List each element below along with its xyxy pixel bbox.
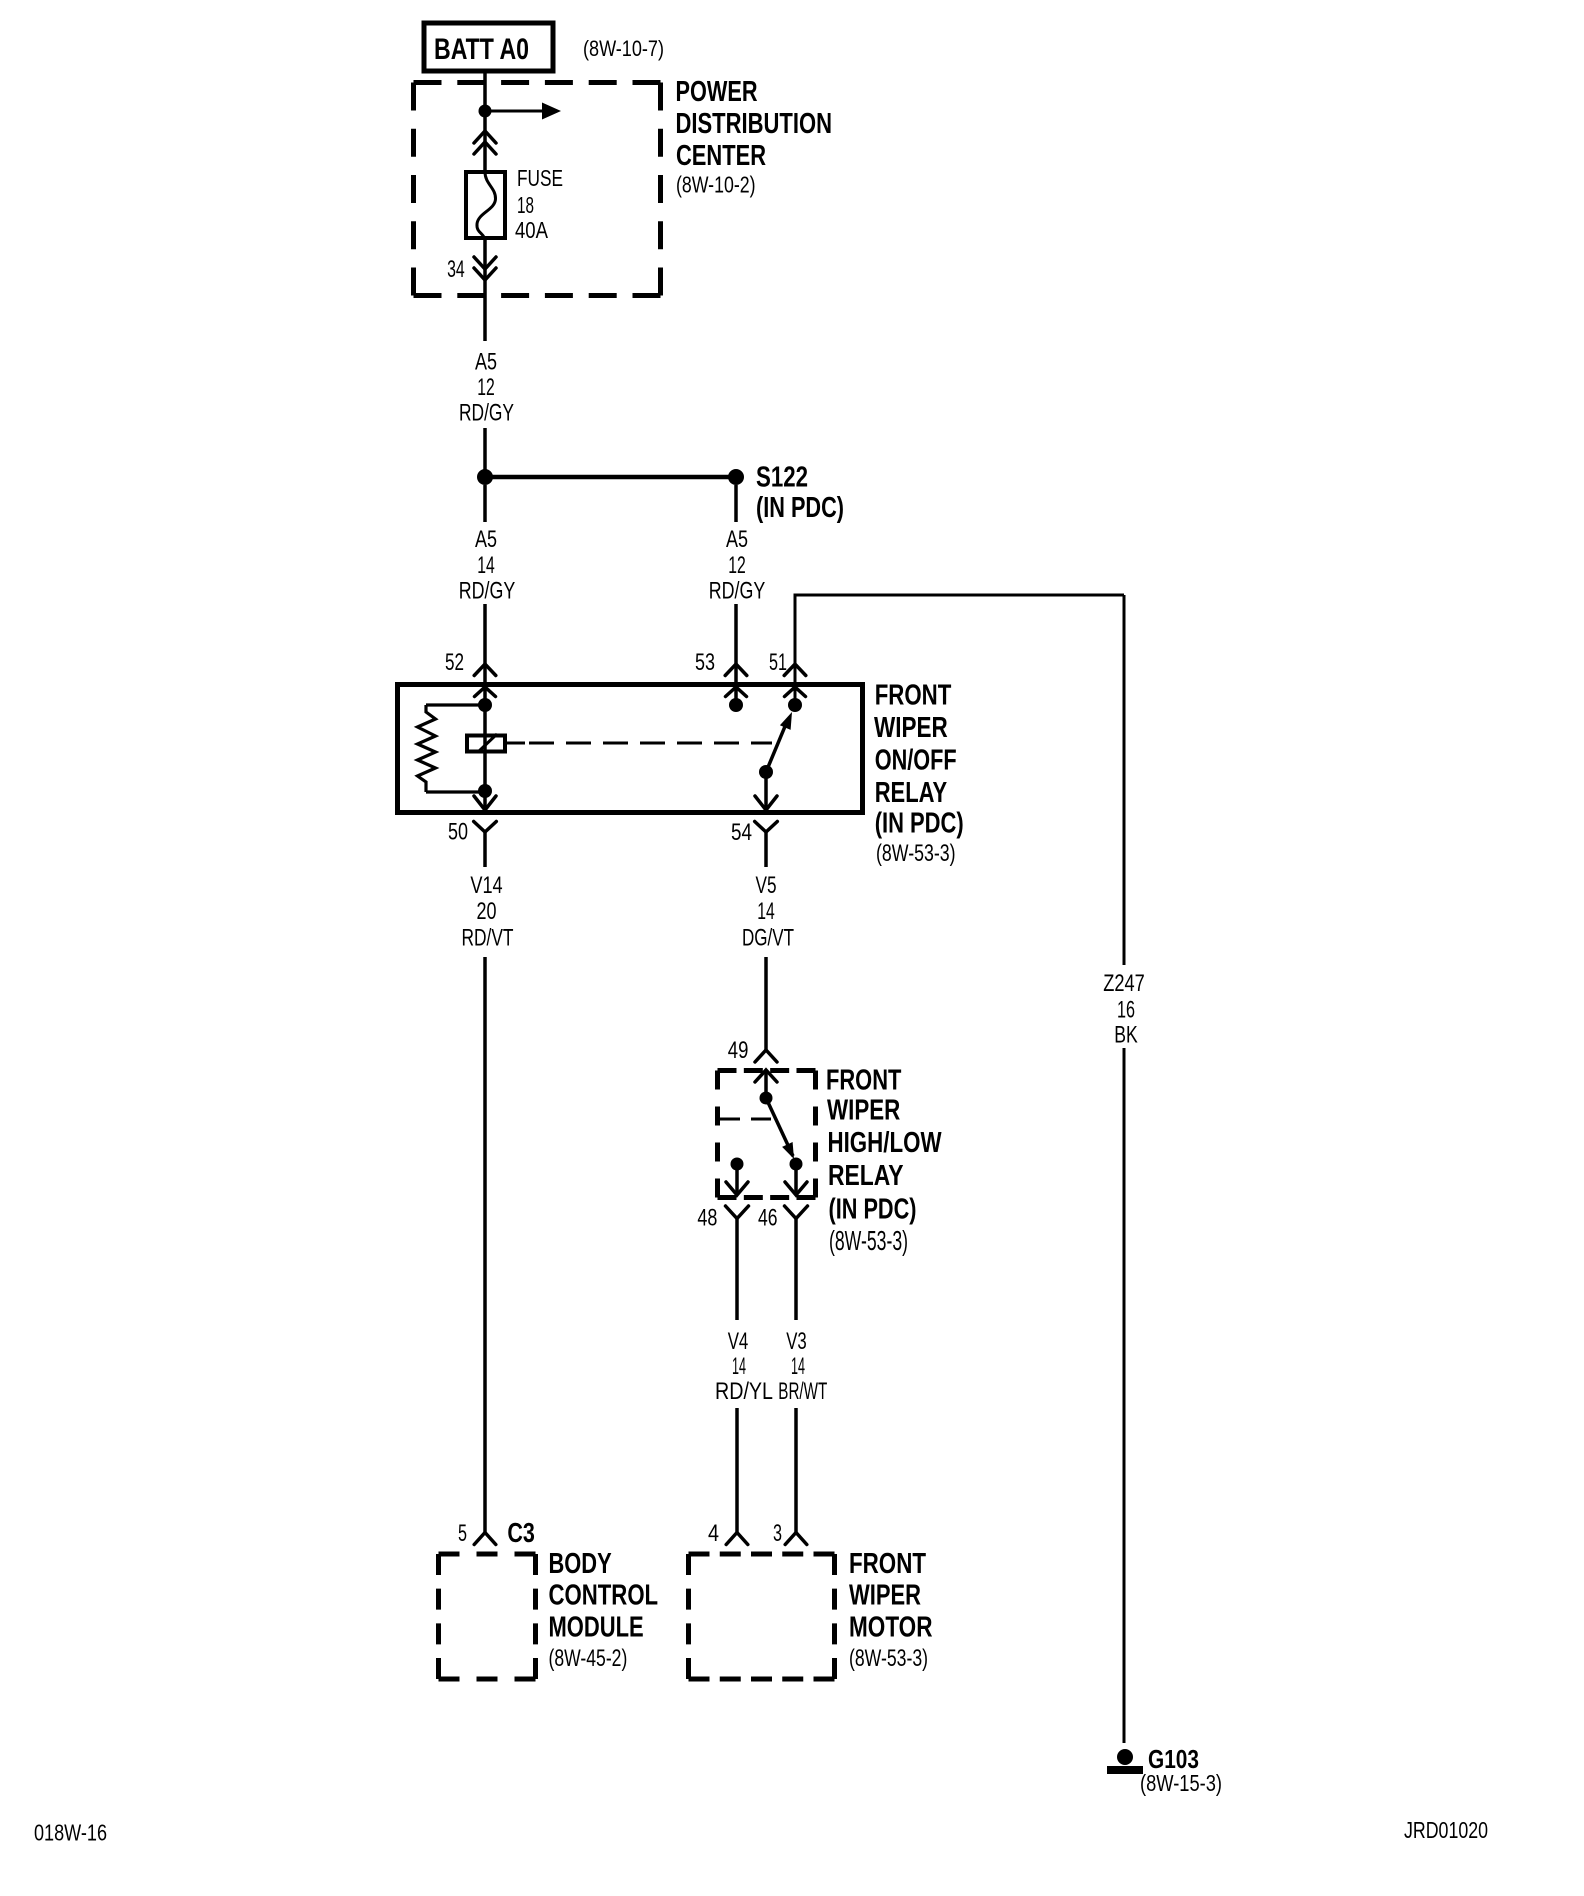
svg-text:14: 14 (732, 1353, 746, 1380)
wire (764, 772, 768, 810)
label FUSE 18 40A (515, 165, 563, 243)
wire (483, 428, 487, 477)
wire splice bus (485, 475, 736, 480)
label BODY CONTROL MODULE (549, 1548, 659, 1672)
wire (483, 485, 487, 522)
wire label V4 14 RD/YL (715, 1328, 773, 1405)
node S122 (728, 469, 744, 485)
svg-text:BR/WT: BR/WT (778, 1378, 827, 1405)
wire (734, 604, 738, 705)
wire label A5 14 RD/GY (459, 526, 516, 605)
pin label 5 (458, 1520, 467, 1547)
svg-text:RELAY: RELAY (875, 777, 947, 809)
relay switch arm (766, 712, 792, 772)
svg-text:018W-16: 018W-16 (34, 1820, 107, 1846)
pin 4 connector (726, 1533, 748, 1545)
wire label V5 14 DG/VT (742, 872, 794, 952)
pin label 53 (695, 649, 715, 676)
svg-text:JRD01020: JRD01020 (1404, 1817, 1488, 1843)
wire label A5 12 RD/GY (459, 349, 514, 427)
svg-text:49: 49 (728, 1037, 749, 1064)
svg-text:(8W-53-3): (8W-53-3) (849, 1645, 928, 1672)
svg-text:DISTRIBUTION: DISTRIBUTION (676, 108, 833, 140)
relay switch arm (766, 1098, 794, 1159)
pin label 3 (773, 1520, 782, 1547)
pin 54 connector (755, 796, 778, 867)
wire (794, 1164, 798, 1195)
relay front wiper high/low box (718, 1071, 816, 1198)
svg-text:12: 12 (728, 552, 746, 579)
node coil bottom (478, 784, 492, 798)
pin 52 connector (474, 664, 496, 697)
label POWER DISTRIBUTION CENTER (676, 76, 833, 198)
svg-text:A5: A5 (726, 526, 748, 553)
svg-text:S122: S122 (756, 462, 808, 494)
svg-text:C3: C3 (507, 1517, 535, 1548)
svg-text:FUSE: FUSE (517, 165, 563, 191)
svg-text:51: 51 (769, 649, 787, 676)
svg-text:14: 14 (791, 1353, 805, 1380)
pin label 54 (731, 819, 752, 846)
wire label A5 12 RD/GY (709, 526, 766, 605)
pin label 48 (697, 1205, 717, 1232)
svg-text:Z247: Z247 (1103, 970, 1145, 997)
pin label 46 (758, 1205, 778, 1232)
svg-text:(8W-10-2): (8W-10-2) (676, 172, 756, 198)
svg-text:16: 16 (1117, 997, 1135, 1024)
relay coil dashed link (716, 1118, 771, 1121)
svg-text:(8W-15-3): (8W-15-3) (1140, 1770, 1222, 1796)
label FRONT WIPER HIGH/LOW RELAY (826, 1065, 942, 1257)
pin 34 chevrons (474, 257, 496, 280)
wire (483, 957, 487, 1532)
svg-text:POWER: POWER (676, 76, 758, 108)
pin 50 connector (474, 796, 497, 867)
wire (483, 705, 487, 791)
svg-text:DG/VT: DG/VT (742, 925, 794, 952)
sheet number 018W-16 (34, 1820, 107, 1846)
connector label C3 (507, 1517, 535, 1548)
svg-text:BATT A0: BATT A0 (434, 33, 529, 66)
pin 51 connector (784, 664, 806, 697)
svg-text:4: 4 (708, 1520, 719, 1547)
wire (1123, 1048, 1126, 1743)
relay actuation dashed link (506, 742, 772, 745)
ground G103 (1107, 1749, 1143, 1774)
svg-text:(8W-45-2): (8W-45-2) (549, 1645, 628, 1672)
wire (794, 1232, 798, 1320)
wire (483, 73, 487, 172)
svg-text:RELAY: RELAY (828, 1160, 904, 1192)
wire (764, 957, 768, 1050)
svg-text:14: 14 (757, 898, 775, 925)
node pin 53 internal (729, 698, 743, 712)
svg-text:BODY: BODY (549, 1548, 612, 1580)
label BATT A0 (434, 33, 529, 66)
reference (8W-10-7) (583, 36, 664, 61)
svg-text:HIGH/LOW: HIGH/LOW (828, 1127, 942, 1159)
pin label 34 (447, 256, 465, 283)
node junction in PDC (479, 105, 492, 118)
svg-text:3: 3 (773, 1520, 782, 1547)
pin 3 connector (785, 1533, 807, 1545)
label G103 (8W-15-3) (1140, 1744, 1222, 1796)
svg-text:V4: V4 (728, 1328, 749, 1355)
label S122 (IN PDC) (756, 462, 844, 525)
svg-text:(8W-53-3): (8W-53-3) (876, 840, 956, 867)
wire (795, 594, 1124, 706)
svg-text:CONTROL: CONTROL (549, 1580, 659, 1612)
label FRONT WIPER ON/OFF RELAY (874, 680, 964, 868)
wire (794, 1408, 798, 1532)
node pin 51 internal (788, 698, 802, 712)
wire (483, 791, 487, 810)
svg-text:BK: BK (1114, 1022, 1138, 1049)
node pin 46 internal (790, 1158, 803, 1171)
power distribution center box (414, 83, 661, 296)
relay front wiper on/off box (398, 685, 863, 813)
wire (483, 604, 487, 705)
svg-text:CENTER: CENTER (676, 140, 766, 172)
wire label V14 20 RD/VT (462, 872, 514, 952)
fuse 18 40A (466, 172, 505, 240)
pin 48 connector (726, 1182, 749, 1232)
node BATT A0 feed box (424, 23, 553, 71)
svg-text:FRONT: FRONT (875, 680, 952, 712)
svg-text:53: 53 (695, 649, 715, 676)
svg-text:RD/VT: RD/VT (462, 925, 514, 952)
svg-text:52: 52 (445, 649, 464, 676)
wire (734, 485, 738, 522)
wire label V3 14 BR/WT (778, 1328, 827, 1405)
node switch pivot (760, 1092, 773, 1105)
pin label 52 (445, 649, 464, 676)
pin 46 connector (785, 1182, 808, 1232)
svg-text:50: 50 (448, 819, 468, 846)
node splice junction (477, 469, 493, 485)
svg-text:RD/GY: RD/GY (709, 578, 766, 605)
wire (735, 1408, 739, 1532)
svg-text:FRONT: FRONT (849, 1548, 926, 1580)
wire (483, 238, 487, 341)
bus bar chevrons (474, 131, 496, 154)
wire (1123, 595, 1126, 965)
wire label Z247 16 BK (1103, 970, 1145, 1049)
relay coil (467, 734, 505, 752)
label FRONT WIPER MOTOR (849, 1548, 933, 1672)
svg-text:V3: V3 (786, 1328, 807, 1355)
svg-text:A5: A5 (475, 349, 497, 376)
svg-text:(8W-53-3): (8W-53-3) (829, 1225, 908, 1256)
svg-text:5: 5 (458, 1520, 467, 1547)
resistor relay coil shunt (418, 705, 486, 792)
pin 53 connector (725, 664, 747, 697)
node pin 48 internal (731, 1158, 744, 1171)
wire (735, 1232, 739, 1320)
svg-text:WIPER: WIPER (827, 1095, 900, 1127)
svg-text:48: 48 (697, 1205, 717, 1232)
svg-text:MOTOR: MOTOR (849, 1612, 933, 1644)
svg-text:A5: A5 (475, 526, 497, 553)
pin label 50 (448, 819, 468, 846)
wire arrow to other circuits (485, 103, 561, 120)
drawing number JRD01020 (1404, 1817, 1488, 1843)
svg-text:WIPER: WIPER (849, 1580, 921, 1612)
svg-text:RD/GY: RD/GY (459, 400, 514, 427)
svg-text:FRONT: FRONT (826, 1065, 902, 1097)
svg-text:46: 46 (758, 1205, 778, 1232)
svg-text:40A: 40A (515, 217, 549, 243)
pin label 51 (769, 649, 787, 676)
svg-text:(8W-10-7): (8W-10-7) (583, 36, 664, 61)
svg-text:(IN PDC): (IN PDC) (875, 808, 964, 840)
node switch pivot (759, 765, 773, 779)
node pin 52 internal (478, 698, 492, 712)
pin label 49 (728, 1037, 749, 1064)
svg-text:MODULE: MODULE (549, 1612, 644, 1644)
svg-text:12: 12 (477, 374, 495, 401)
svg-text:18: 18 (517, 192, 534, 218)
svg-text:(IN PDC): (IN PDC) (829, 1194, 917, 1226)
svg-text:WIPER: WIPER (874, 712, 948, 744)
pin 5 connector C3 (474, 1533, 496, 1545)
svg-text:14: 14 (477, 552, 495, 579)
svg-text:34: 34 (447, 256, 465, 283)
body control module box (439, 1554, 536, 1679)
wire (735, 1164, 739, 1195)
front wiper motor box (689, 1554, 835, 1679)
svg-text:V5: V5 (756, 872, 777, 899)
svg-text:RD/YL: RD/YL (715, 1378, 773, 1405)
svg-text:(IN PDC): (IN PDC) (756, 492, 844, 524)
svg-text:ON/OFF: ON/OFF (875, 745, 957, 777)
pin label 4 (708, 1520, 719, 1547)
svg-text:V14: V14 (470, 872, 502, 899)
svg-text:20: 20 (477, 898, 497, 925)
pin 49 connector (755, 1050, 777, 1062)
svg-text:54: 54 (731, 819, 752, 846)
svg-text:RD/GY: RD/GY (459, 578, 516, 605)
pin 49 inner chevron (755, 1070, 777, 1092)
